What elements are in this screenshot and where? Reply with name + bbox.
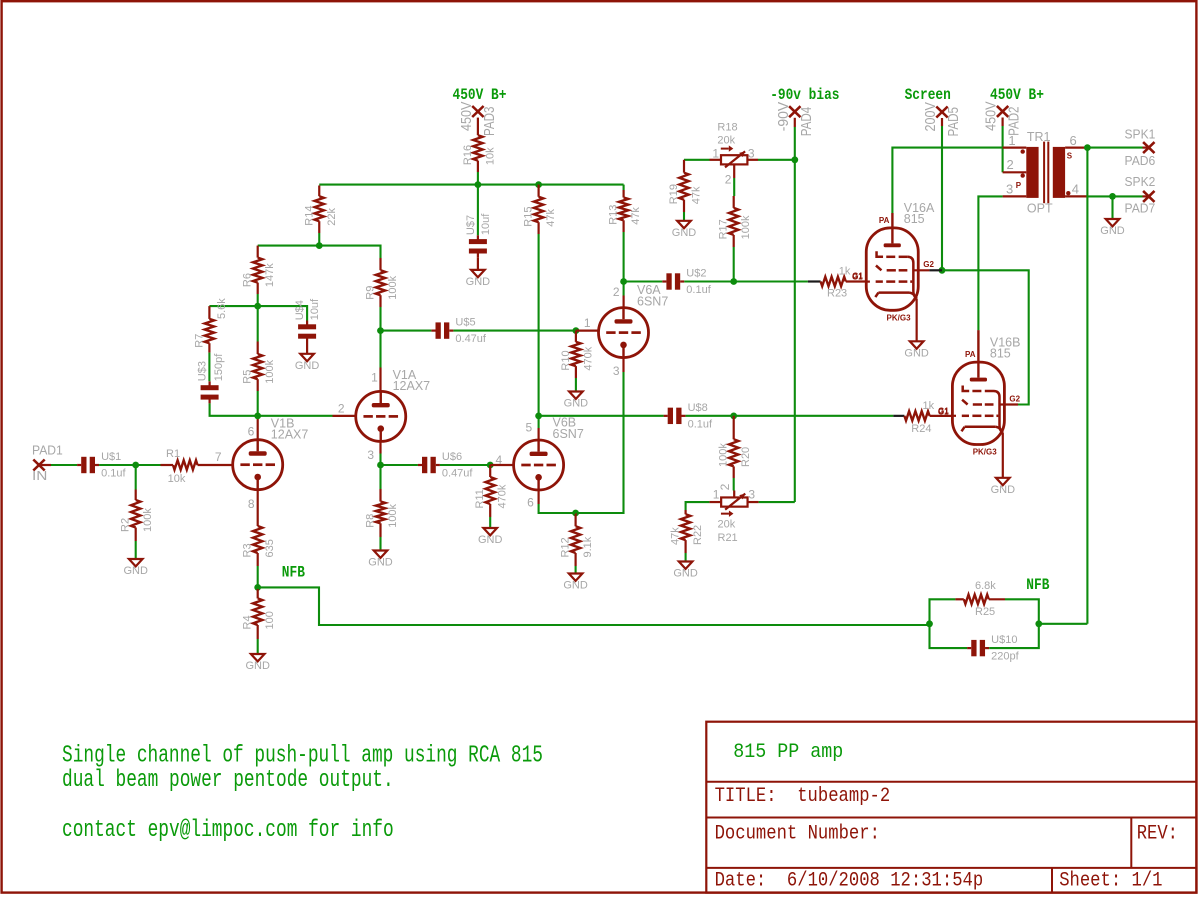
tube V1A plate: [372, 403, 390, 407]
title block row lines: [706, 781, 1196, 783]
wire R17 to node L: [733, 247, 735, 282]
svg-text:G1: G1: [938, 407, 949, 416]
wire U$1 to node IN2: [99, 464, 136, 466]
pad PAD1: [33, 460, 44, 471]
svg-text:12AX7: 12AX7: [393, 379, 431, 393]
V16A g1 pin lead inside: [867, 281, 870, 283]
svg-text:R22: R22: [692, 525, 704, 545]
svg-text:47k: 47k: [670, 527, 682, 545]
svg-text:200V: 200V: [923, 102, 939, 132]
V6B grid pin lead: [490, 464, 513, 466]
svg-text:20k: 20k: [717, 135, 735, 147]
svg-text:20k: 20k: [718, 519, 736, 531]
ground: [1106, 219, 1120, 226]
wire to R1: [136, 464, 161, 466]
svg-text:PAD4: PAD4: [799, 107, 815, 136]
svg-text:PK/G3: PK/G3: [973, 448, 998, 457]
resistor R1: [161, 464, 174, 466]
junction rail/R15: [535, 181, 542, 188]
svg-text:REV:: REV:: [1137, 822, 1178, 845]
wire R22 to GND: [685, 553, 687, 562]
svg-text:U$5: U$5: [455, 317, 475, 329]
capacitor U$1: [77, 464, 81, 466]
ground: [679, 562, 693, 569]
resistor R20: [733, 416, 735, 439]
wire cathode to node D: [379, 454, 381, 466]
svg-text:dual beam power pentode output: dual beam power pentode output.: [62, 767, 394, 794]
svg-text:1: 1: [712, 146, 719, 160]
svg-text:47k: 47k: [630, 207, 642, 225]
V6A cathode lead: [622, 358, 624, 372]
capacitor U$10: [967, 647, 971, 649]
svg-text:SPK1: SPK1: [1125, 127, 1156, 141]
wire pin4 row: [1087, 195, 1112, 197]
svg-text:TITLE: tubeamp-2: TITLE: tubeamp-2: [715, 785, 891, 808]
svg-text:470k: 470k: [582, 346, 594, 370]
resistor R5: [257, 342, 259, 355]
svg-text:PA: PA: [879, 216, 890, 225]
V16A g2 pin lead: [913, 269, 929, 271]
resistor R6: [257, 246, 259, 258]
junction node B (grid V1A / plate V1B): [254, 412, 261, 419]
svg-text:GND: GND: [564, 398, 589, 410]
tube V16A screen grid g2: [877, 251, 884, 256]
svg-text:NFB: NFB: [1026, 576, 1049, 594]
tube V16B screen grid g2: [963, 386, 970, 392]
svg-text:12AX7: 12AX7: [271, 428, 309, 442]
R21 terminal 1 wire: [709, 501, 721, 503]
capacitor U$3: [209, 381, 211, 386]
wire node H to V6B plate: [538, 416, 540, 428]
svg-text:635: 635: [264, 539, 276, 557]
svg-text:6SN7: 6SN7: [553, 427, 584, 441]
svg-text:6SN7: 6SN7: [637, 294, 668, 308]
wire node C to U$5: [381, 330, 432, 332]
junction node NFB left: [254, 584, 261, 591]
svg-text:R7: R7: [193, 334, 205, 348]
wire R12 to GND: [575, 566, 577, 574]
svg-text:GND: GND: [368, 557, 393, 569]
wire node L to R23: [734, 280, 808, 282]
svg-text:R20: R20: [740, 447, 752, 467]
OPT primary coil: [1026, 147, 1038, 198]
svg-text:2: 2: [718, 483, 732, 490]
junction node G2A: [939, 267, 946, 274]
svg-text:470k: 470k: [497, 484, 509, 508]
wire PAD5 down to node G2A: [941, 118, 943, 126]
svg-text:4: 4: [1072, 181, 1079, 196]
svg-text:contact epv@limpoc.com for inf: contact epv@limpoc.com for info: [62, 817, 394, 844]
svg-text:G2: G2: [1009, 394, 1020, 403]
wire NFB box bottom branch: [930, 624, 968, 648]
svg-text:R9: R9: [365, 286, 377, 300]
wire U$3 to corner and node B: [210, 403, 258, 415]
svg-text:150pf: 150pf: [213, 353, 225, 381]
V16A plate lead: [891, 213, 893, 243]
capacitor U$6: [418, 464, 422, 466]
OPT secondary coil: [1053, 147, 1065, 198]
pad PAD7: [1143, 191, 1154, 202]
tube V16A grid g1 row: [876, 266, 882, 271]
svg-text:PAD7: PAD7: [1125, 202, 1156, 216]
junction node SPK1: [1084, 144, 1091, 151]
wire PAD4 down to pot R21: [794, 118, 796, 127]
svg-text:GND: GND: [466, 276, 491, 288]
svg-text:1: 1: [371, 370, 378, 384]
tube V16A grid row3: [876, 280, 883, 283]
wire R25 to N2: [1005, 599, 1039, 624]
svg-text:R4: R4: [242, 615, 254, 629]
svg-text:U$1: U$1: [101, 451, 121, 463]
wire node F to U$2: [624, 280, 663, 282]
junction node C (R9/U$5): [377, 327, 384, 334]
V16B g1 pin lead inside: [953, 415, 956, 417]
wire NFB run: [258, 587, 930, 625]
svg-text:GND: GND: [478, 534, 503, 546]
junction node M (R20): [730, 412, 737, 419]
ground: [374, 551, 388, 558]
tube V6A 6SN7 envelope: [599, 308, 649, 358]
svg-text:3: 3: [1006, 182, 1013, 197]
svg-text:SPK2: SPK2: [1125, 175, 1156, 189]
tube V1B grid: [240, 463, 249, 466]
wire U$7 drop: [477, 185, 479, 236]
V1A grid pin lead: [333, 415, 357, 417]
resistor R25: [955, 598, 963, 600]
svg-text:R23: R23: [827, 287, 847, 299]
junction node SPK2: [1109, 193, 1116, 200]
svg-text:IN: IN: [32, 469, 47, 483]
svg-text:GND: GND: [563, 580, 588, 592]
resistor R24: [893, 415, 904, 417]
wire R10 to GND: [575, 378, 577, 392]
junction node H (U$8 / R15 / V6B plate): [535, 412, 542, 419]
svg-text:8: 8: [248, 497, 255, 511]
svg-text:3: 3: [613, 364, 620, 378]
junction node IN2: [132, 462, 139, 469]
tube V16A 815 envelope: [866, 228, 918, 310]
svg-text:Document Number:: Document Number:: [715, 822, 880, 845]
V6A grid pin lead: [576, 330, 599, 332]
svg-text:PAD6: PAD6: [1125, 154, 1156, 168]
wire OPT pin3 to V16B plate: [978, 196, 1002, 330]
wire R11 to GND: [489, 517, 491, 528]
OPT pin 3 lead: [1003, 195, 1027, 197]
wire node M to R24: [734, 415, 894, 417]
capacitor U$4: [306, 321, 308, 326]
wire NFB box top branch: [930, 599, 956, 624]
ground: [251, 654, 265, 661]
pad PAD2: [997, 106, 1008, 117]
wire rail corner to R13: [623, 185, 625, 190]
tube V6B plate: [530, 452, 548, 456]
svg-text:3: 3: [748, 146, 755, 160]
svg-text:R18: R18: [717, 122, 737, 134]
ground: [300, 354, 314, 361]
capacitor U$8: [664, 415, 668, 417]
svg-text:Screen: Screen: [905, 86, 951, 104]
svg-text:450V B+: 450V B+: [453, 86, 507, 104]
tube V16B cathode: [962, 427, 965, 432]
wire R5 top: [257, 306, 259, 341]
wire PAD2 down to OPT pin2: [1001, 118, 1003, 127]
pad PAD6: [1143, 142, 1154, 153]
wire R19 to GND: [683, 212, 685, 221]
ground: [569, 392, 583, 399]
OPT core: [1043, 142, 1045, 204]
svg-text:6: 6: [248, 424, 255, 438]
resistor R10: [575, 331, 577, 342]
svg-text:450V: 450V: [459, 101, 475, 131]
svg-text:R15: R15: [523, 207, 535, 227]
wire U$5 to node G: [453, 330, 576, 332]
R18 terminal 1 wire: [710, 159, 722, 161]
wire node E left to R6: [258, 245, 320, 247]
svg-text:147k: 147k: [264, 263, 276, 287]
resistor R23: [808, 280, 821, 282]
V1B cathode lead to R3: [257, 490, 259, 526]
wire R20 to R21 wiper: [733, 478, 735, 491]
svg-text:10k: 10k: [168, 473, 186, 485]
svg-text:6.8k: 6.8k: [975, 580, 996, 592]
OPT pin 1 lead: [1003, 147, 1027, 149]
svg-text:GND: GND: [295, 360, 320, 372]
wire R15 long drop to node H: [538, 234, 540, 416]
tube V1B cathode: [254, 474, 261, 481]
wire to SPK1 pad: [1087, 147, 1142, 149]
wire R3 to NFB node: [257, 566, 259, 587]
resistor R22: [684, 510, 686, 514]
svg-text:PAD2: PAD2: [1007, 106, 1023, 135]
svg-text:4: 4: [496, 453, 503, 467]
tube V6A grid: [606, 331, 615, 334]
tube V16B plate: [970, 378, 987, 382]
svg-text:815: 815: [904, 212, 925, 226]
wire node D to R8: [379, 465, 381, 489]
svg-text:GND: GND: [673, 568, 698, 580]
junction node D (U$6/R8): [377, 462, 384, 469]
svg-text:R14: R14: [303, 206, 315, 226]
wire node D to U$6: [381, 464, 418, 466]
tube V16B 815 envelope: [952, 362, 1004, 444]
svg-text:450V B+: 450V B+: [990, 86, 1044, 104]
svg-text:R6: R6: [242, 273, 254, 287]
svg-text:7: 7: [215, 450, 222, 464]
svg-text:100k: 100k: [142, 508, 154, 532]
title block column lines: [1130, 818, 1132, 868]
resistor R8: [379, 489, 381, 502]
svg-text:R2: R2: [120, 518, 132, 532]
capacitor U$5: [431, 330, 435, 332]
tube V16B grid row3: [962, 415, 969, 418]
svg-text:100k: 100k: [387, 503, 399, 527]
wire R5 to node B: [257, 391, 259, 416]
svg-text:P: P: [1016, 181, 1022, 190]
resistor R7: [208, 306, 210, 319]
ground: [996, 478, 1010, 485]
wire node H to U$8: [539, 415, 664, 417]
svg-text:R24: R24: [911, 423, 931, 435]
svg-text:1: 1: [1008, 133, 1015, 148]
ground: [471, 270, 485, 277]
svg-text:100k: 100k: [740, 215, 752, 239]
junction node J (R11 / V6B grid): [487, 462, 494, 469]
wire N2 to NFB vertical: [1039, 623, 1088, 625]
V6B cathode lead: [537, 490, 539, 504]
junction node bias/R18: [791, 156, 798, 163]
wire R2 top: [135, 465, 137, 490]
svg-text:3: 3: [748, 487, 755, 501]
svg-text:R17: R17: [718, 219, 730, 239]
junction node K (R12): [572, 510, 579, 517]
svg-text:GND: GND: [123, 565, 148, 577]
V1B plate lead: [257, 417, 259, 440]
resistor R9: [379, 258, 381, 270]
svg-text:815 PP amp: 815 PP amp: [733, 741, 843, 764]
tube V16A plate: [884, 243, 901, 247]
svg-text:47k: 47k: [545, 208, 557, 226]
svg-text:PA: PA: [965, 350, 976, 359]
potentiometer R18: [721, 155, 747, 164]
svg-text:1k: 1k: [923, 400, 935, 412]
junction node G (R10 / V6A grid): [573, 327, 580, 334]
svg-text:100: 100: [264, 611, 276, 629]
svg-text:U$10: U$10: [991, 634, 1017, 646]
svg-text:Single channel of push-pull am: Single channel of push-pull amp using RC…: [62, 742, 543, 769]
resistor R12: [574, 513, 576, 526]
V1A cathode lead: [379, 441, 381, 453]
resistor R14: [318, 186, 320, 197]
svg-text:NFB: NFB: [282, 564, 305, 582]
wire R6 to node A: [257, 294, 259, 306]
svg-text:22k: 22k: [326, 207, 338, 225]
V16A cathode lead to GND: [916, 299, 918, 342]
resistor R3: [253, 526, 262, 553]
svg-text:-90V: -90V: [776, 101, 792, 131]
potentiometer R21: [721, 497, 747, 506]
wire R14 to node E: [318, 233, 320, 246]
wire R2 to GND: [135, 541, 137, 559]
V6B plate lead: [537, 428, 539, 440]
svg-text:2: 2: [1007, 157, 1014, 172]
svg-text:0.47uf: 0.47uf: [442, 468, 474, 480]
tube V16A cathode: [875, 293, 878, 298]
svg-text:R1: R1: [166, 448, 180, 460]
junction node A (R5/R6/U$4/R7): [254, 303, 261, 310]
wire V6B cathode to node K: [539, 504, 576, 513]
tube V1B 12AX7 envelope: [233, 440, 283, 490]
svg-text:2: 2: [613, 285, 620, 299]
svg-text:5.6k: 5.6k: [216, 298, 228, 319]
junction node E: [316, 242, 323, 249]
pad PAD3: [472, 106, 483, 117]
pad PAD5: [936, 107, 947, 118]
svg-text:GND: GND: [672, 227, 697, 239]
wire 450V rail: [319, 184, 623, 186]
svg-text:R5: R5: [242, 370, 254, 384]
wire U$10 to N2: [989, 624, 1039, 648]
svg-text:Date: 6/10/2008 12:31:54p: Date: 6/10/2008 12:31:54p: [715, 870, 984, 893]
svg-text:Sheet: 1/1: Sheet: 1/1: [1059, 870, 1162, 893]
V16B plate lead: [977, 330, 979, 378]
resistor R13: [622, 190, 624, 198]
OPT pin 2 lead: [1003, 171, 1027, 173]
svg-text:6: 6: [527, 496, 534, 510]
svg-text:100k: 100k: [264, 359, 276, 383]
junction node N2: [1035, 620, 1042, 627]
svg-text:GND: GND: [1100, 225, 1125, 237]
ground: [677, 221, 691, 228]
wire U$8 to node M: [686, 415, 734, 417]
svg-text:0.47uf: 0.47uf: [455, 333, 487, 345]
svg-text:U$8: U$8: [688, 402, 708, 414]
V6A plate lead: [622, 296, 624, 308]
wire R8 to GND: [379, 537, 381, 551]
title block outline: [706, 722, 1196, 893]
wire V1A plate to node C: [379, 331, 381, 368]
svg-text:U$2: U$2: [686, 268, 706, 280]
svg-text:R10: R10: [560, 350, 572, 370]
svg-text:1k: 1k: [839, 265, 851, 277]
R18 wiper lead: [733, 164, 735, 178]
R18 terminal 3 wire: [747, 159, 758, 161]
svg-text:0.1uf: 0.1uf: [101, 468, 126, 480]
tube V16B grid g1 row: [962, 400, 968, 405]
ground: [569, 574, 583, 581]
wire node E right to R9: [319, 246, 380, 258]
junction node F (V6A plate / U$2): [620, 278, 627, 285]
resistor R4: [257, 589, 259, 598]
svg-text:PAD3: PAD3: [482, 107, 498, 136]
wire U$2 to node L: [684, 280, 733, 282]
svg-text:10uf: 10uf: [480, 213, 492, 235]
wire OPT pin1 to V16A plate: [892, 148, 1002, 213]
svg-text:S: S: [1067, 152, 1073, 161]
svg-text:220pf: 220pf: [991, 651, 1019, 663]
svg-text:U$3: U$3: [197, 361, 209, 381]
wire R13 to node F: [623, 232, 625, 282]
resistor R2: [135, 490, 137, 501]
svg-text:1: 1: [584, 316, 591, 330]
wire U$4 to GND: [306, 343, 308, 354]
tube V1A cathode: [377, 425, 384, 432]
wire R9 to node C: [379, 307, 381, 331]
ground: [483, 528, 497, 535]
svg-text:2: 2: [725, 172, 732, 186]
tube V6B grid: [521, 464, 530, 467]
junction rail/R16: [475, 181, 482, 188]
wire node G2A to V16B g2: [942, 270, 1029, 404]
ground: [129, 559, 143, 566]
tube V1A grid: [363, 415, 372, 418]
svg-text:R3: R3: [242, 543, 254, 557]
wire V6A plate to node F: [623, 282, 625, 296]
svg-text:GND: GND: [245, 660, 270, 672]
svg-text:815: 815: [990, 346, 1011, 360]
wire R4 to GND: [257, 639, 259, 654]
wire node A to R7 corner: [209, 305, 257, 307]
svg-text:5: 5: [526, 421, 533, 435]
svg-text:47k: 47k: [691, 186, 703, 204]
resistor R19: [683, 160, 685, 173]
svg-text:100k: 100k: [387, 275, 399, 299]
svg-text:R21: R21: [718, 532, 738, 544]
V1A plate lead: [379, 368, 381, 392]
svg-text:100k: 100k: [718, 443, 730, 467]
svg-text:R13: R13: [608, 205, 620, 225]
wire SPK2 node to GND: [1111, 196, 1113, 219]
svg-text:6: 6: [1070, 133, 1077, 148]
